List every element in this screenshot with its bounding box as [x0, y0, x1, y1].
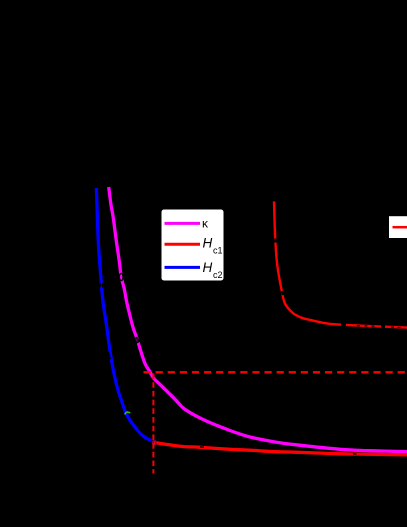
curve kappa (magenta) — [109, 187, 407, 452]
gap on red main — [200, 446, 204, 448]
gap on magenta mid — [135, 338, 138, 343]
horizontal dashed red line — [144, 371, 407, 373]
faint tick specks on inset curve tail — [270, 326, 401, 447]
dash gaps (black overlays) — [107, 239, 385, 455]
faint glyph on magenta gap — [135, 338, 137, 341]
svg-text:c2: c2 — [213, 270, 223, 280]
inset curve (red) — [274, 201, 407, 327]
green marker on blue curve — [125, 412, 130, 415]
inset legend box (clipped at right edge) — [389, 216, 407, 238]
black 'H' glyph on blue — [100, 283, 102, 288]
vertical dashed red line — [152, 374, 154, 474]
junction marker — [152, 440, 156, 444]
svg-text:H: H — [203, 260, 213, 275]
legend line kappa — [165, 222, 201, 225]
svg-text:c1: c1 — [213, 246, 223, 256]
curve Hc2 (blue) — [96, 188, 151, 441]
main legend box — [162, 210, 224, 281]
curve Hc1 (red) — [154, 442, 407, 455]
inset legend line — [393, 226, 407, 229]
gaps on inset curve — [274, 239, 277, 243]
legend line Hc1 — [165, 243, 201, 246]
black 'o' glyph on magenta — [119, 273, 123, 280]
gap on blue mid — [107, 353, 109, 360]
legend line Hc2 — [165, 266, 201, 269]
svg-text:κ: κ — [202, 216, 209, 230]
svg-text:H: H — [203, 236, 213, 251]
